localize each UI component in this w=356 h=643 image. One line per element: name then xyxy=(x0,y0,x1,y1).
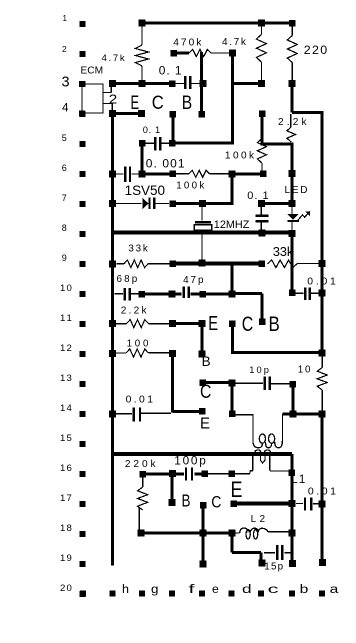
svg-text:0. 001: 0. 001 xyxy=(146,156,185,170)
wire col-e drop row9-row10 xyxy=(231,263,234,296)
capacitor C8 10p xyxy=(236,383,264,384)
svg-text:14: 14 xyxy=(60,403,72,414)
svg-text:E: E xyxy=(231,477,243,502)
svg-text:19: 19 xyxy=(60,553,72,564)
svg-text:b: b xyxy=(300,584,309,596)
svg-text:2: 2 xyxy=(109,92,118,107)
svg-text:h: h xyxy=(122,584,129,596)
node row6 col-e junction xyxy=(229,170,236,177)
svg-text:10p: 10p xyxy=(249,365,269,375)
svg-text:B: B xyxy=(182,491,191,511)
node row6 segB right terminal xyxy=(260,171,267,178)
svg-text:10: 10 xyxy=(60,283,72,294)
resistor R1 4.7k vertical (col g-h) xyxy=(141,25,142,45)
wire right bus vertical lower (column a side) xyxy=(320,411,323,564)
svg-text:15p: 15p xyxy=(264,562,283,573)
svg-text:E: E xyxy=(131,93,140,114)
node col-b row18 junction xyxy=(288,530,295,537)
resistor R11 100 horizontal xyxy=(116,352,126,353)
capacitor C9 0.01 (row14) xyxy=(116,413,132,414)
svg-text:33k: 33k xyxy=(128,244,147,255)
svg-text:11: 11 xyxy=(60,313,72,324)
wire Q4 collector drop xyxy=(201,505,204,564)
wire rail18 thick xyxy=(141,531,232,534)
wire row13 thick xyxy=(203,381,232,384)
svg-text:1SV50: 1SV50 xyxy=(125,183,165,198)
svg-text:B: B xyxy=(182,93,192,114)
wire corner down to collector stub xyxy=(261,293,264,319)
wire L2 right lead xyxy=(268,531,290,532)
svg-text:a: a xyxy=(330,584,340,596)
wire rail15 corner down col-b xyxy=(290,454,293,505)
wire Q2 base drop xyxy=(201,324,204,355)
wire row7 right thick to LED column xyxy=(261,202,292,205)
svg-text:g: g xyxy=(151,584,159,596)
wire col-e vertical row6-row7 xyxy=(231,174,234,205)
capacitor C10 100p xyxy=(176,472,184,475)
resistor R2 470k horizontal xyxy=(170,50,177,57)
svg-text:C: C xyxy=(211,494,221,512)
node row10 col-e junction xyxy=(229,291,236,298)
svg-text:0. 1: 0. 1 xyxy=(143,125,160,135)
node rail18 collector junction xyxy=(199,529,206,536)
wire row14 thin jog to L1 xyxy=(236,414,254,415)
inductor L2 xyxy=(235,532,240,533)
resistor R12 10 vertical (bus) xyxy=(322,356,323,368)
node row9 rail right terminal xyxy=(258,261,265,268)
node C3 right junction xyxy=(139,170,146,177)
wire row14 thick (col f to E) xyxy=(173,410,203,413)
wire rail17 thick xyxy=(234,502,293,506)
node Q4 collector bottom terminal xyxy=(199,560,206,567)
wire row16 thick xyxy=(146,473,171,476)
node C4 bottom on rail8 xyxy=(258,229,265,236)
node row6 segA right terminal xyxy=(170,171,177,178)
node rail17 col-b junction xyxy=(289,500,296,507)
node collector stub 2 terminal xyxy=(200,379,207,386)
node row13 col-e junction xyxy=(229,379,236,386)
inductor L1 secondary left leg xyxy=(252,456,253,471)
node emitter stub top (col e) xyxy=(229,320,236,327)
node rail1-R3 junction xyxy=(258,20,265,27)
wire col-e drop row18-row18.5 xyxy=(230,533,233,552)
svg-text:100: 100 xyxy=(127,339,149,350)
wire ECM pin1 stub xyxy=(103,92,111,93)
resistor R13 220k vertical xyxy=(142,478,143,487)
wire row6 thick segment B xyxy=(232,172,263,175)
node col-b row6 xyxy=(288,170,295,177)
resistor R3 4.7k vertical (col c) xyxy=(261,26,262,35)
wire varactor left lead xyxy=(116,203,142,204)
capacitor C6 47p xyxy=(175,293,182,296)
wire row6 thick segment A xyxy=(142,172,173,175)
inductor L1 primary right leg xyxy=(282,414,283,441)
wire 220-bottom down to corner xyxy=(291,83,294,112)
svg-text:13: 13 xyxy=(60,373,72,384)
node 470k right / base line top xyxy=(229,50,236,57)
svg-text:20: 20 xyxy=(60,583,72,594)
svg-text:4.7k: 4.7k xyxy=(102,53,125,64)
wire 100k stub vertical xyxy=(261,114,264,146)
node bus-row12 xyxy=(109,350,116,357)
node row19 terminal (col c) xyxy=(258,559,265,566)
node R4 bottom junction xyxy=(289,80,296,87)
node collector stub terminal (col c) xyxy=(259,319,266,326)
resistor R7 100k horizontal xyxy=(176,173,189,174)
node row12.5 on bus xyxy=(318,349,325,356)
node row11 col-f junction xyxy=(169,320,176,327)
wire row7 thick xyxy=(175,202,234,205)
svg-text:3: 3 xyxy=(62,75,70,91)
svg-text:LED: LED xyxy=(285,185,308,196)
svg-text:68p: 68p xyxy=(117,274,138,285)
svg-text:2.2k: 2.2k xyxy=(121,305,148,316)
capacitor C4 0.1 (row7-8) xyxy=(261,206,262,215)
svg-text:15: 15 xyxy=(60,433,72,444)
node Q1 base bottom terminal xyxy=(198,111,205,118)
svg-text:4.7k: 4.7k xyxy=(222,37,247,48)
node C8 right terminal xyxy=(290,381,297,388)
svg-text:0.01: 0.01 xyxy=(126,394,154,405)
resistor R4 220 vertical (col b) xyxy=(292,26,293,36)
node R1 bottom on rail3 xyxy=(139,80,146,87)
capacitor C12 15p xyxy=(264,552,275,553)
node right bus bottom terminal xyxy=(319,559,326,566)
node col-b row10 terminal xyxy=(289,290,296,297)
svg-text:12: 12 xyxy=(60,343,72,354)
node col-b row14 junction xyxy=(289,411,296,418)
node C11 right on bus xyxy=(318,500,325,507)
varactor diode D1 1SV50 xyxy=(143,198,149,209)
svg-text:47p: 47p xyxy=(183,275,204,286)
crystal X1 12MHZ lead xyxy=(201,206,202,221)
wire LED column row8-row10 xyxy=(291,232,294,295)
node bus-row6 xyxy=(109,170,116,177)
svg-text:9: 9 xyxy=(62,253,67,263)
wire secondary left tail xyxy=(250,470,253,471)
wire top supply rail row1 xyxy=(139,22,293,25)
svg-text:0. 1: 0. 1 xyxy=(159,63,182,77)
wire corner down to row19 terminal xyxy=(259,552,262,560)
wire ECM pin2 stub xyxy=(103,103,112,104)
wire R3-bottom to base-column xyxy=(232,82,262,85)
svg-text:10: 10 xyxy=(298,364,311,375)
capacitor C11 0.01 (row17) xyxy=(296,503,303,504)
node ECM bottom-left pin xyxy=(79,110,85,116)
wire col-e drop row13-row14 xyxy=(231,383,234,414)
wire 2.2k chain down col b xyxy=(291,143,294,206)
node row9 crystal-net junction xyxy=(199,260,206,267)
inductor L1 secondary hump left xyxy=(255,450,261,452)
svg-text:4: 4 xyxy=(62,102,69,115)
capacitor C7 0.01 (row10 right) xyxy=(296,293,304,294)
resistor R5 100k vertical (col c) xyxy=(257,139,266,164)
svg-text:100p: 100p xyxy=(174,454,206,468)
svg-text:5: 5 xyxy=(62,133,67,143)
capacitor C3 0.001 xyxy=(116,173,123,174)
node C5 right terminal xyxy=(138,291,145,298)
node rail1-R2 junction xyxy=(139,20,146,27)
node R9 right on bus xyxy=(318,260,325,267)
wire C2 left drop to row6 xyxy=(141,147,144,175)
node row11 col-e2 junction xyxy=(199,320,206,327)
wire row18.5 thick xyxy=(232,551,261,554)
resistor R8 33k horizontal xyxy=(117,263,125,264)
crystal X1 top plate xyxy=(195,221,211,223)
node C7 right on bus xyxy=(318,290,325,297)
wire supply rail row3 (mic) xyxy=(110,82,175,85)
svg-text:0. 1: 0. 1 xyxy=(247,190,268,202)
node varactor right terminal xyxy=(170,200,177,207)
wire col-b drop row16-row19 xyxy=(291,505,294,565)
node C10 right terminal xyxy=(202,471,209,478)
wire row9 rail thick xyxy=(173,261,264,265)
wire emitter stub down xyxy=(231,324,234,355)
node bus row14 junction xyxy=(318,411,325,418)
node col-b row16 junction xyxy=(289,469,296,476)
LED D2 symbol xyxy=(291,206,292,215)
node row10 col-f junction xyxy=(169,291,176,298)
svg-text:8: 8 xyxy=(62,223,67,233)
node rail4 right terminal xyxy=(138,110,145,117)
svg-text:16: 16 xyxy=(60,463,72,474)
svg-text:2: 2 xyxy=(62,44,67,54)
node crystal tap xyxy=(199,200,206,207)
capacitor C5 68p xyxy=(115,293,124,294)
capacitor C1 0.1 (row3, base coupling) xyxy=(175,83,184,84)
node 100k top stub terminal xyxy=(259,110,266,117)
wire row12.5 thick (emitter to bus) xyxy=(232,351,322,354)
inductor L1 primary left leg xyxy=(252,415,253,441)
node E terminal (row16) xyxy=(229,470,236,477)
wire row10 segment B to corner xyxy=(232,292,262,295)
wire row11 thick xyxy=(172,322,202,325)
node C6 right cap terminal xyxy=(200,291,207,298)
node rail18 right junction xyxy=(228,530,235,537)
svg-text:B: B xyxy=(202,353,211,369)
wire row14 right thick xyxy=(282,413,322,416)
node bus-row11 xyxy=(109,320,116,327)
svg-text:c: c xyxy=(268,584,279,596)
capacitor C2 0.1 (row5) xyxy=(139,140,146,147)
wire left ground bus (column g) xyxy=(111,114,114,566)
wire Q4 base drop col-f xyxy=(171,474,174,504)
svg-text:C: C xyxy=(152,93,164,114)
svg-text:2.2k: 2.2k xyxy=(278,117,307,128)
wire 220k bottom lead xyxy=(139,508,140,531)
svg-text:C: C xyxy=(200,382,211,403)
svg-text:0.01: 0.01 xyxy=(308,485,336,497)
node Q4 base terminal xyxy=(169,499,176,506)
wire crystal-net drop row8-row9 xyxy=(201,235,202,262)
wire Q1 collector stub (col f) xyxy=(170,111,177,118)
inductor L1 primary winding xyxy=(253,441,263,448)
svg-text:470k: 470k xyxy=(173,37,202,48)
node 220k top terminal xyxy=(139,471,146,478)
node bus-row7 xyxy=(109,200,116,207)
grid dots left margin rows 1-20 xyxy=(80,21,86,27)
svg-text:6: 6 xyxy=(62,163,67,173)
node base line / C1 junction xyxy=(199,80,206,87)
inductor L1 secondary hump right xyxy=(265,450,271,452)
svg-text:0.01: 0.01 xyxy=(307,277,336,288)
node row16 col-f junction xyxy=(169,470,176,477)
svg-text:17: 17 xyxy=(60,493,72,504)
node R3 bottom junction xyxy=(258,80,265,87)
svg-text:7: 7 xyxy=(62,193,67,203)
svg-text:220: 220 xyxy=(304,43,327,57)
wire emitter rail row4 xyxy=(111,112,145,115)
grid dots bottom row xyxy=(80,591,86,597)
node row7 col-c junction xyxy=(258,200,265,207)
node 220k bottom terminal xyxy=(138,530,145,537)
svg-text:12MHZ: 12MHZ xyxy=(214,219,250,231)
LED light arrow xyxy=(298,213,309,221)
node LED top junction xyxy=(288,200,295,207)
node ECM top-left pin xyxy=(79,81,85,87)
svg-text:E: E xyxy=(200,415,210,432)
svg-text:L1: L1 xyxy=(291,474,305,486)
inductor L1 secondary right leg xyxy=(269,456,270,471)
svg-text:C: C xyxy=(242,313,254,336)
ECM microphone body xyxy=(82,84,103,113)
wire right bus vertical upper (column a side) xyxy=(320,111,323,356)
wire ground rail row8 xyxy=(111,231,293,235)
resistor R9 33k horizontal (right) xyxy=(268,260,298,268)
node bus-rail3 xyxy=(109,80,116,87)
wire varactor right lead xyxy=(155,203,169,204)
wire tank rail row15 xyxy=(111,452,292,456)
node rail17 left terminal xyxy=(231,500,238,507)
node LED bottom terminal on rail8 xyxy=(289,230,296,237)
node col-b bottom terminal xyxy=(289,560,296,567)
resistor R10 2.2k horizontal xyxy=(116,323,127,324)
node bus-rail4 xyxy=(109,110,116,117)
wire Q1 base vertical line xyxy=(200,52,203,117)
wire right bus top segment from 2.2k corner xyxy=(292,111,323,114)
node row12 col-f terminal xyxy=(169,350,176,357)
svg-text:B: B xyxy=(269,313,280,336)
node rail3 right terminal xyxy=(169,80,176,87)
wire corner to 2.2k bottom xyxy=(262,143,292,146)
node Q2 base terminal xyxy=(199,351,206,358)
svg-text:e: e xyxy=(212,584,219,596)
resistor R6 2.2k vertical (col b) xyxy=(290,114,291,127)
node bus-row14 xyxy=(109,411,116,418)
svg-text:E: E xyxy=(208,313,218,335)
inductor L1 secondary center loop xyxy=(260,456,265,463)
svg-text:ECM: ECM xyxy=(81,65,104,76)
node rail1 right corner xyxy=(289,20,296,27)
node row9 rail left terminal xyxy=(170,260,177,267)
wire row16 thin to coil xyxy=(208,473,250,474)
node E stub terminal (row14) xyxy=(199,408,206,415)
wire col-b drop row13-row14 xyxy=(291,384,294,414)
wire col-f drop row12-row14 xyxy=(171,354,174,413)
wire base-col vertical from 470k down to collector row xyxy=(231,51,234,145)
wire secondary right tail to col-b xyxy=(270,470,291,471)
node bus-row9 xyxy=(109,260,116,267)
svg-text:d: d xyxy=(242,584,252,596)
wire row10 segment A xyxy=(145,293,171,296)
crystal X1 body xyxy=(194,225,212,230)
node col-e row14 terminal xyxy=(229,410,236,417)
svg-text:1: 1 xyxy=(63,14,68,23)
svg-text:18: 18 xyxy=(60,523,72,534)
node Q4 collector terminal xyxy=(200,502,207,509)
